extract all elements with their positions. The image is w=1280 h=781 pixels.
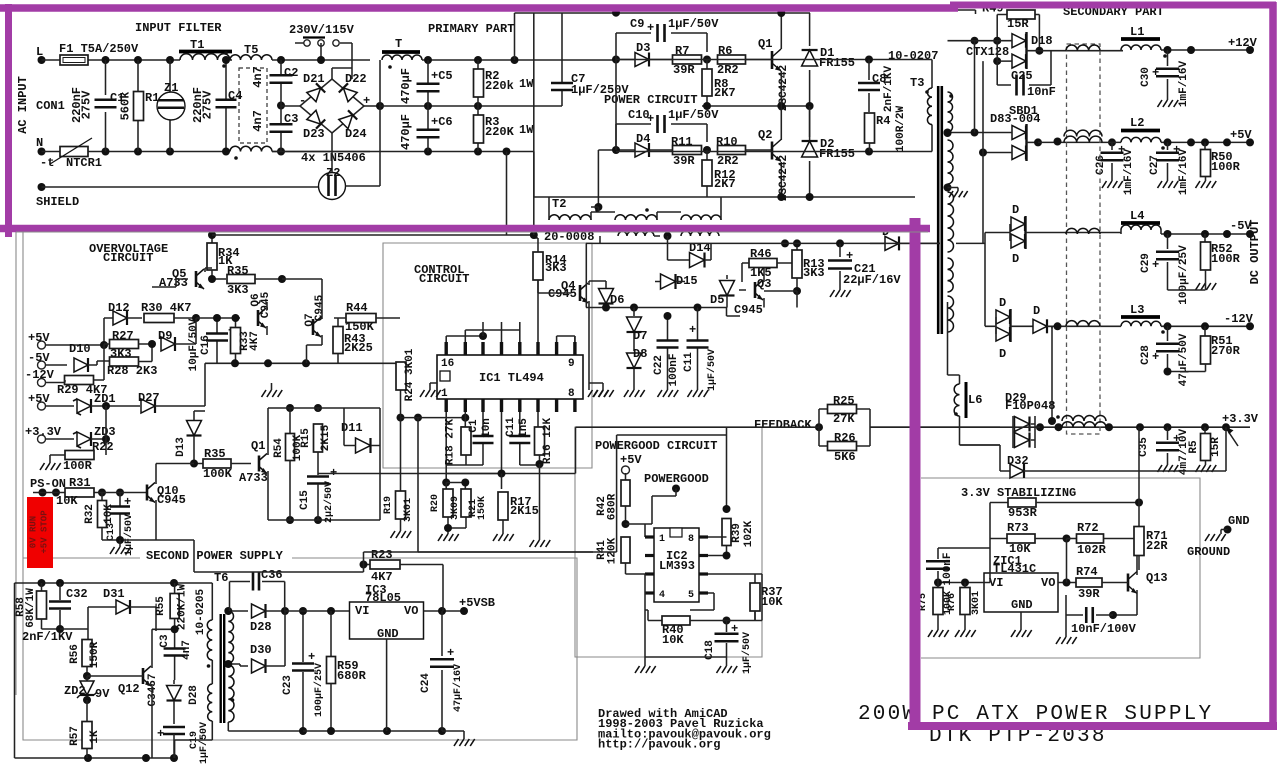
bridge diamond wires <box>300 79 364 133</box>
wire T5 right bottom <box>272 151 370 153</box>
ground symbol right <box>1205 534 1226 541</box>
svg-text:C30: C30 <box>1140 67 1152 87</box>
svg-text:+C5: +C5 <box>431 69 453 83</box>
svg-text:C2: C2 <box>284 66 298 80</box>
svg-text:1K: 1K <box>89 730 101 744</box>
capacitor C30 <box>1167 50 1169 100</box>
svg-text:R35: R35 <box>227 264 249 278</box>
sense arrow +3.3V <box>1228 431 1238 446</box>
svg-text:100µF/25V: 100µF/25V <box>313 663 325 717</box>
svg-text:27K: 27K <box>833 412 855 426</box>
wire sec to stabil <box>960 445 1001 471</box>
wire q13 emitter <box>1113 614 1137 616</box>
svg-text:D27: D27 <box>138 391 160 405</box>
svg-text:C28: C28 <box>1140 345 1152 365</box>
svg-text:100R: 100R <box>1211 160 1241 174</box>
wire SBD1 in <box>948 133 1013 153</box>
wire L6 top <box>947 334 949 375</box>
junction -12V bottom <box>1164 368 1172 376</box>
wire pin 5 long <box>483 322 502 336</box>
svg-text:+5V: +5V <box>1230 128 1252 142</box>
junction mid rail <box>424 102 432 110</box>
svg-text:15R: 15R <box>1007 17 1029 31</box>
capacitor C24 <box>441 611 443 731</box>
dashed core T5 <box>239 68 267 143</box>
diode D1 FR155 <box>809 13 811 106</box>
svg-text:DC OUTPUT: DC OUTPUT <box>1248 220 1262 285</box>
wire Z1 vertical <box>169 60 171 152</box>
svg-text:D18: D18 <box>1031 34 1053 48</box>
transistor Q6 C945 <box>257 310 260 326</box>
junction dots top rail <box>102 56 110 64</box>
svg-text:D83-004: D83-004 <box>990 112 1040 126</box>
block outline powergood <box>575 427 762 657</box>
svg-text:R19: R19 <box>383 496 394 514</box>
capacitor C36 <box>253 573 259 591</box>
wire ic3 out <box>424 610 465 612</box>
junction q12 col <box>151 628 153 630</box>
svg-text:+: + <box>447 646 454 660</box>
svg-text:1µF/50V: 1µF/50V <box>706 349 718 391</box>
wire vi left <box>938 582 984 584</box>
svg-text:10K: 10K <box>662 633 684 647</box>
svg-text:5: 5 <box>688 590 694 601</box>
wire q10 ground row <box>102 539 156 541</box>
svg-text:100nF: 100nF <box>942 552 954 585</box>
wire 610 rail <box>285 610 350 612</box>
wire -12V link <box>1040 326 1052 328</box>
svg-text:2K7: 2K7 <box>714 86 736 100</box>
junction 363 row <box>231 359 239 367</box>
junction mid node <box>703 102 711 110</box>
wire pin6 up <box>519 322 521 330</box>
T3 secondary arcs4 <box>948 258 954 292</box>
capacitor C16 <box>216 318 218 363</box>
junction R40 right <box>723 617 731 625</box>
svg-text:1W: 1W <box>519 123 534 137</box>
svg-text:C15: C15 <box>299 490 311 510</box>
wire control top link <box>585 243 587 307</box>
capacitor C11b <box>697 308 699 391</box>
wire C7 branch <box>561 13 563 106</box>
svg-text:VI: VI <box>989 576 1003 590</box>
svg-text:+12V: +12V <box>1228 36 1258 50</box>
wire D18 in <box>948 41 1013 61</box>
resistor R24 <box>396 362 406 390</box>
block outline control circuit <box>383 243 592 468</box>
wire pin up right <box>557 336 575 342</box>
svg-text:C23: C23 <box>282 675 294 695</box>
junction R35b right <box>278 275 286 283</box>
svg-text:D31: D31 <box>103 587 125 601</box>
T3 secondary arcs3 <box>948 192 954 252</box>
svg-text:R31: R31 <box>69 476 91 490</box>
svg-text:VI: VI <box>355 604 369 618</box>
svg-text:POWERGOOD: POWERGOOD <box>644 472 709 486</box>
svg-text:R27: R27 <box>112 329 134 343</box>
svg-text:2R2: 2R2 <box>717 154 739 168</box>
svg-text:D28: D28 <box>250 620 272 634</box>
diode D11 <box>356 438 371 453</box>
red highlight PS-ON box <box>27 497 53 568</box>
thermistor NTCR1 <box>60 147 88 157</box>
capacitor C19 <box>163 727 185 734</box>
T3 center tap dots <box>944 129 952 137</box>
wire -5V rail <box>1029 230 1250 234</box>
resistor R16 <box>537 412 539 427</box>
node N terminal <box>38 148 46 156</box>
node SHIELD <box>38 183 46 191</box>
svg-text:0V RUN: 0V RUN <box>29 516 39 548</box>
resistor R22 <box>65 451 94 460</box>
capacitor C33 <box>938 503 990 583</box>
svg-text:15R: 15R <box>1210 437 1222 457</box>
svg-text:R7: R7 <box>675 44 689 58</box>
highlight right border <box>1269 2 1277 729</box>
shunt ZIC1 TL431C <box>984 573 1058 612</box>
svg-text:C36: C36 <box>261 568 283 582</box>
wire top rail primary <box>422 59 616 61</box>
svg-text:270R: 270R <box>1211 344 1241 358</box>
svg-text:D5: D5 <box>710 293 724 307</box>
wire r23 left <box>194 540 364 572</box>
capacitor C28 <box>1167 326 1169 371</box>
ground 10nf <box>1056 637 1077 644</box>
svg-text:1: 1 <box>659 534 665 545</box>
capacitor C2 <box>270 75 293 83</box>
wire CTX bus down <box>934 10 976 14</box>
resistor R31 <box>65 488 94 497</box>
wire pin2 down <box>461 412 465 427</box>
svg-text:275V: 275V <box>201 90 215 120</box>
junction q1d <box>286 404 294 412</box>
svg-text:PRIMARY PART: PRIMARY PART <box>428 22 514 36</box>
wire pin7 up <box>537 299 539 342</box>
svg-text:R57: R57 <box>69 726 81 746</box>
wire Q7 links <box>282 278 322 280</box>
svg-text:2K7: 2K7 <box>714 177 736 191</box>
svg-text:R44: R44 <box>346 301 368 315</box>
capacitor C26 <box>1111 142 1113 181</box>
wire pin16 up <box>446 336 483 342</box>
capacitor C10 <box>616 124 707 150</box>
wire bottom rail to T3 <box>616 125 932 152</box>
transistor Q2 2SC4242 <box>771 142 774 160</box>
svg-text:D10: D10 <box>69 342 91 356</box>
svg-text:R46: R46 <box>750 247 772 261</box>
transistor Q5 A733 <box>195 271 198 287</box>
svg-text:Z2: Z2 <box>326 166 340 180</box>
svg-text:220K/1W: 220K/1W <box>177 584 189 631</box>
svg-text:+5V STOP: +5V STOP <box>40 510 50 554</box>
wire feedback r23 row <box>589 362 591 364</box>
svg-text:78L05: 78L05 <box>365 591 401 605</box>
svg-text:+: + <box>647 21 654 35</box>
wire R44 row <box>103 318 105 345</box>
block outline lower-left <box>16 232 23 695</box>
wire T5 right top <box>272 59 370 61</box>
regulator IC3 78L05 <box>350 602 424 639</box>
diode D27 <box>141 399 155 413</box>
svg-text:10nF: 10nF <box>1027 85 1056 99</box>
svg-text:D8: D8 <box>633 347 647 361</box>
wire 20-0008 down <box>667 242 669 244</box>
svg-text:39R: 39R <box>673 63 695 77</box>
wire mid rail <box>380 105 562 107</box>
junction 610 rail <box>327 607 335 615</box>
diode D24 <box>339 110 357 128</box>
wire r16 down <box>539 464 541 540</box>
svg-text:D7: D7 <box>633 329 647 343</box>
wire drive vertical A <box>533 13 535 235</box>
grounds under diodes <box>593 390 614 397</box>
node powergood <box>672 485 680 493</box>
resistor R13 <box>796 243 798 250</box>
svg-text:Q2: Q2 <box>758 128 772 142</box>
svg-text:39R: 39R <box>673 154 695 168</box>
zener ZD3 <box>77 432 91 446</box>
svg-text:1µF/50V: 1µF/50V <box>668 108 719 122</box>
capacitor C1 <box>95 100 117 108</box>
wire bridge left <box>281 105 300 107</box>
resistor R17 <box>498 492 508 520</box>
svg-text:+: + <box>124 495 131 509</box>
ground R24 <box>420 390 441 397</box>
junction q12 base <box>83 672 91 680</box>
svg-text:10-0207: 10-0207 <box>888 49 938 63</box>
svg-text:2nF/1KV: 2nF/1KV <box>883 66 895 113</box>
svg-text:1n5: 1n5 <box>518 418 530 438</box>
ground r16 <box>530 540 551 547</box>
svg-text:10nF/100V: 10nF/100V <box>1071 622 1137 636</box>
svg-text:39R: 39R <box>1078 587 1100 601</box>
junction R14 top <box>530 231 538 239</box>
svg-text:1mF/16V: 1mF/16V <box>1178 61 1190 108</box>
wire Q10 collector row <box>156 463 194 465</box>
wire +3.3V rail <box>1035 426 1250 428</box>
svg-text:9V: 9V <box>95 687 110 701</box>
junction feedback <box>815 423 823 431</box>
wire t6 right top <box>228 610 248 612</box>
resistor R44 <box>346 314 376 323</box>
capacitor C23 <box>302 611 304 731</box>
diode D21 <box>307 83 325 101</box>
diode D30 <box>252 659 266 673</box>
svg-text:R54: R54 <box>273 438 285 458</box>
wire ic2 pin3 <box>708 574 755 583</box>
svg-text:L6: L6 <box>968 393 982 407</box>
svg-text:1K5: 1K5 <box>750 266 772 280</box>
wire C1 C11 bottom join <box>466 464 540 465</box>
capacitor C1b <box>482 412 484 465</box>
junction +5V <box>1164 138 1172 146</box>
svg-text:R39: R39 <box>731 523 743 543</box>
svg-text:R18 27K: R18 27K <box>445 419 457 466</box>
svg-text:102K: 102K <box>743 520 755 547</box>
wire t6 left down <box>175 660 213 758</box>
resistor R39 <box>726 427 728 509</box>
highlight middle border <box>0 225 930 233</box>
svg-text:Z1: Z1 <box>164 81 178 95</box>
transistor Q1d A733 <box>258 456 261 472</box>
svg-text:3K3: 3K3 <box>803 266 825 280</box>
svg-text:C24: C24 <box>420 673 432 693</box>
svg-text:4n7: 4n7 <box>251 66 265 88</box>
wire switch mid down <box>320 43 322 58</box>
svg-text:D28: D28 <box>188 685 200 705</box>
diode D4 <box>635 143 649 157</box>
resistor R7 <box>673 55 702 64</box>
wire q1d col <box>267 408 269 520</box>
svg-text:2K15: 2K15 <box>510 504 539 518</box>
svg-text:100K: 100K <box>203 467 233 481</box>
junction 615 <box>1109 611 1117 619</box>
svg-text:2µ2/50V: 2µ2/50V <box>323 481 335 523</box>
resistor R76 <box>964 583 966 589</box>
terminal -5V <box>38 361 46 369</box>
wire pin4 down <box>446 412 501 474</box>
wire -5V link <box>956 234 1050 243</box>
junction q10 gnd <box>116 536 124 544</box>
svg-text:2R2: 2R2 <box>717 63 739 77</box>
svg-text:-12V: -12V <box>1224 312 1254 326</box>
svg-text:4n7: 4n7 <box>251 110 265 132</box>
wire upper drive rail <box>616 59 772 61</box>
resistor R50 <box>1204 142 1206 150</box>
wire halfbridge top <box>515 13 811 60</box>
block outline under highlight <box>16 231 928 233</box>
junction drive lower <box>612 146 620 154</box>
wire 307 bus <box>586 308 740 317</box>
svg-text:3K09: 3K09 <box>450 496 461 520</box>
junction base row <box>213 314 221 322</box>
svg-text:102R: 102R <box>1077 543 1107 557</box>
svg-text:470µF: 470µF <box>399 114 413 150</box>
svg-text:560k: 560k <box>119 92 133 121</box>
wire pg right border <box>755 574 762 621</box>
svg-text:D22: D22 <box>345 72 367 86</box>
fuse F1 <box>60 55 88 65</box>
svg-text:+: + <box>1152 350 1159 364</box>
ground zic1 <box>1011 630 1032 637</box>
resistor R25 <box>828 405 857 414</box>
resistor R74 <box>1058 582 1076 584</box>
svg-text:VO: VO <box>404 604 418 618</box>
resistor R42 <box>625 473 627 480</box>
diode D5 <box>720 281 735 296</box>
svg-text:A733: A733 <box>239 471 268 485</box>
transistor Q13 <box>1127 574 1130 592</box>
svg-text:POWERGOOD CIRCUIT: POWERGOOD CIRCUIT <box>595 439 717 453</box>
svg-text:150K: 150K <box>477 496 488 520</box>
wire 243 bus <box>586 242 940 244</box>
svg-text:+5V: +5V <box>28 392 50 406</box>
svg-text:R26: R26 <box>834 431 856 445</box>
wire shield <box>42 186 319 188</box>
svg-text:L2: L2 <box>1130 116 1144 130</box>
wire R1 vertical <box>137 60 139 152</box>
terminal +5VSB <box>460 607 468 615</box>
svg-text:10K: 10K <box>761 595 783 609</box>
resistor R18 <box>464 417 466 419</box>
svg-text:D21: D21 <box>303 72 325 86</box>
wire lower drive rail <box>598 60 772 208</box>
svg-text:+5V: +5V <box>28 331 50 345</box>
resistor R46 <box>749 259 777 268</box>
winding arcs 3.3V <box>1062 416 1106 422</box>
junction R24 top <box>397 414 405 422</box>
ground q10 <box>110 547 131 554</box>
wire Q1 emitter join <box>780 71 782 106</box>
svg-text:+3.3V: +3.3V <box>1222 412 1259 426</box>
wire 731 rail <box>303 730 442 732</box>
wire -12V bottom <box>1168 371 1206 373</box>
svg-text:+C6: +C6 <box>431 115 453 129</box>
junction T5 out <box>277 56 285 64</box>
resistor R36 <box>203 459 231 468</box>
diode D2 FR155 <box>809 106 811 197</box>
svg-text:+5VSB: +5VSB <box>459 596 495 610</box>
junction 243 bus <box>836 239 844 247</box>
junction C8 <box>865 56 873 64</box>
resistor R29 <box>65 376 94 385</box>
svg-text:GND: GND <box>1011 598 1033 612</box>
svg-text:C29: C29 <box>1140 253 1152 273</box>
svg-text:R74: R74 <box>1076 565 1098 579</box>
wire 473 row <box>318 427 576 473</box>
svg-text:8: 8 <box>688 534 694 545</box>
resistor R3 <box>474 115 484 143</box>
svg-text:LM393: LM393 <box>659 559 695 573</box>
svg-text:10K: 10K <box>56 494 78 508</box>
varistor Z1 <box>157 92 185 120</box>
svg-text:-t: -t <box>40 156 54 170</box>
diode D10 <box>74 358 88 372</box>
T3 secondary arcs2 <box>948 140 954 184</box>
diode D28v <box>173 680 175 684</box>
svg-text:Q6: Q6 <box>250 293 262 306</box>
dashed winding box <box>1067 44 1101 434</box>
capacitor C3 4n7 <box>174 629 176 680</box>
svg-text:10n: 10n <box>481 418 493 438</box>
svg-text:+3.3V: +3.3V <box>25 425 62 439</box>
svg-text:NTCR1: NTCR1 <box>66 156 102 170</box>
resistor R6 <box>718 55 746 64</box>
svg-text:100R/2W: 100R/2W <box>895 106 907 153</box>
svg-text:10µF/50V: 10µF/50V <box>188 318 200 371</box>
wire pin3 r17 <box>501 474 503 490</box>
junction D18 <box>971 37 979 45</box>
svg-text:4x 1N5406: 4x 1N5406 <box>301 151 366 165</box>
svg-text:R20: R20 <box>430 494 441 512</box>
svg-text:C3: C3 <box>159 634 171 648</box>
wire R30 to Q6 <box>196 317 240 319</box>
junction D13 R36 <box>190 460 198 468</box>
svg-text:C945: C945 <box>314 294 326 321</box>
wire bridge top to switch <box>332 68 352 79</box>
svg-text:C945: C945 <box>548 287 577 301</box>
svg-text:680R: 680R <box>337 669 367 683</box>
wire T up <box>379 60 381 106</box>
wire T1 to T5 <box>230 59 232 61</box>
svg-text:N: N <box>36 136 43 150</box>
svg-text:230V/115V: 230V/115V <box>289 23 355 37</box>
junction 473 <box>317 472 319 474</box>
svg-text:R73: R73 <box>1007 521 1029 535</box>
wire ctx long down1 <box>974 41 976 133</box>
svg-text:D: D <box>1033 304 1040 318</box>
svg-text:10-0205: 10-0205 <box>195 589 207 636</box>
